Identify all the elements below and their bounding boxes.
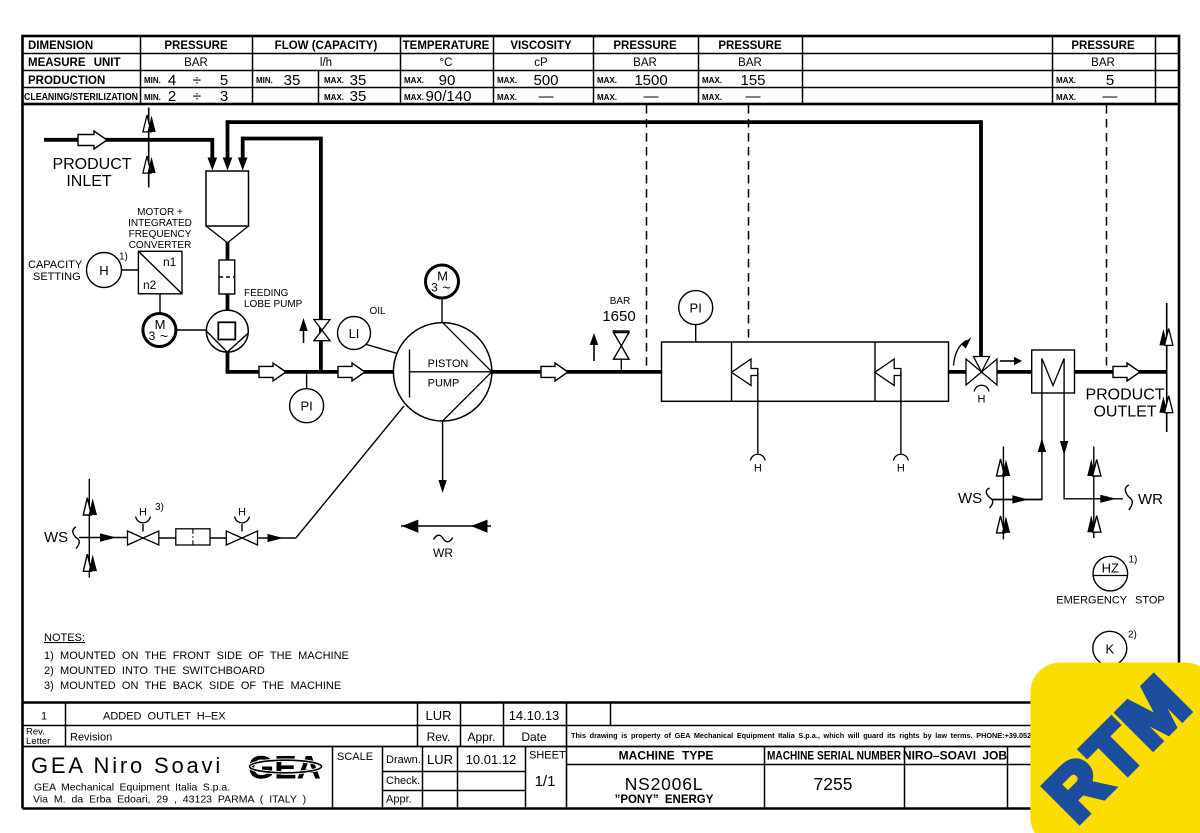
open flow arrow lobe pump discharge 2 bbox=[338, 363, 365, 381]
svg-text:H: H bbox=[897, 463, 905, 475]
wire converter to motor bbox=[159, 294, 161, 313]
svg-text:n2: n2 bbox=[143, 278, 157, 292]
pipe recycle drop to hopper bbox=[226, 120, 230, 160]
svg-text:4: 4 bbox=[168, 72, 176, 89]
svg-text:3: 3 bbox=[149, 329, 156, 343]
svg-text:PUMP: PUMP bbox=[428, 378, 460, 390]
pipe lobe pump to piston pump bbox=[226, 370, 394, 374]
svg-text:BAR: BAR bbox=[610, 296, 631, 307]
WR flow arrow bbox=[1100, 495, 1116, 503]
svg-text:2: 2 bbox=[168, 88, 176, 105]
dashed signal line pressure 155 column bbox=[748, 105, 750, 342]
pipe 3way valve to heat exchanger bbox=[997, 370, 1032, 374]
WS left flow arrow bbox=[100, 533, 116, 541]
svg-text:NS2006L: NS2006L bbox=[625, 774, 704, 794]
frame right border bbox=[1178, 104, 1181, 703]
pipe hopper to damper bbox=[226, 242, 230, 260]
svg-text:÷: ÷ bbox=[193, 72, 201, 89]
svg-text:1): 1) bbox=[119, 252, 128, 263]
water out arrow down bbox=[1060, 441, 1068, 455]
svg-text:—: — bbox=[1103, 88, 1118, 105]
heat exchanger water inlet pipe bbox=[993, 359, 1042, 500]
WR barrier triangles bbox=[1087, 459, 1101, 532]
hand actuator WS valve 1 bbox=[136, 502, 164, 532]
svg-text:GEA: GEA bbox=[248, 750, 321, 786]
pipe lobe pump discharge bbox=[226, 351, 230, 372]
svg-text:PRESSURE: PRESSURE bbox=[718, 40, 782, 52]
heat exchanger box bbox=[1032, 350, 1075, 393]
svg-text:MAX.: MAX. bbox=[597, 93, 617, 102]
frame left border bbox=[21, 104, 24, 703]
flexible damper joint bbox=[219, 260, 235, 294]
svg-text:MAX.: MAX. bbox=[324, 93, 344, 102]
pipe damper to lobe pump bbox=[226, 294, 230, 311]
WS left flow arrow 2 bbox=[268, 534, 284, 542]
svg-text:MAX.: MAX. bbox=[1056, 76, 1076, 85]
svg-text:H: H bbox=[99, 263, 108, 278]
svg-text:VISCOSITY: VISCOSITY bbox=[510, 40, 572, 52]
svg-text:PRODUCT: PRODUCT bbox=[52, 156, 131, 173]
strainer box bbox=[176, 529, 210, 545]
pipe homogenizer block to 3way valve bbox=[949, 370, 967, 374]
wire H to frequency converter bbox=[122, 269, 139, 271]
svg-text:BAR: BAR bbox=[1091, 57, 1115, 69]
svg-text:MACHINE TYPE: MACHINE TYPE bbox=[619, 749, 714, 763]
svg-text:OUTLET: OUTLET bbox=[1093, 404, 1156, 421]
svg-text:PRESSURE: PRESSURE bbox=[613, 40, 677, 52]
svg-text:LUR: LUR bbox=[427, 752, 453, 767]
svg-text:1650: 1650 bbox=[602, 308, 635, 325]
svg-text:LOBE PUMP: LOBE PUMP bbox=[244, 299, 303, 310]
piston pump circle bbox=[393, 323, 491, 421]
svg-text:OIL: OIL bbox=[370, 306, 387, 317]
svg-text:PRESSURE: PRESSURE bbox=[1071, 40, 1135, 52]
svg-text:WS: WS bbox=[958, 490, 982, 507]
table outer border bbox=[23, 36, 1180, 104]
svg-text:500: 500 bbox=[533, 72, 558, 89]
svg-text:INLET: INLET bbox=[66, 173, 112, 190]
pipe strainer to valve2 bbox=[210, 537, 226, 539]
bypass valve bowtie bbox=[314, 320, 330, 341]
hand valve WS 2 bbox=[226, 531, 257, 545]
svg-text:CLEANING/STERILIZATION: CLEANING/STERILIZATION bbox=[24, 92, 138, 103]
svg-text:MAX.: MAX. bbox=[702, 76, 722, 85]
pipe recycle top horizontal bbox=[228, 120, 982, 124]
svg-text:Appr.: Appr. bbox=[386, 794, 412, 806]
pipe break squiggle WR bbox=[1125, 485, 1132, 510]
svg-text:BAR: BAR bbox=[633, 57, 657, 69]
svg-text:÷: ÷ bbox=[193, 88, 201, 105]
hopper inlet arrow 2 bbox=[223, 158, 233, 171]
pipe valve1 to strainer bbox=[159, 537, 176, 539]
svg-text:ADDED OUTLET H–EX: ADDED OUTLET H–EX bbox=[103, 711, 226, 723]
svg-text:5: 5 bbox=[1106, 72, 1114, 89]
svg-text:FLOW (CAPACITY): FLOW (CAPACITY) bbox=[275, 40, 378, 52]
svg-text:FEEDING: FEEDING bbox=[244, 288, 289, 299]
svg-text:MIN.: MIN. bbox=[144, 93, 161, 102]
pipe break squiggle WS right bbox=[986, 488, 993, 508]
svg-text:Revision: Revision bbox=[70, 732, 112, 744]
oil level indicator LI bbox=[338, 317, 371, 350]
wire motor to lobe pump bbox=[176, 329, 207, 331]
svg-text:BAR: BAR bbox=[738, 57, 762, 69]
motor M 3~ for lobe pump bbox=[143, 314, 176, 347]
pipe product inlet horizontal bbox=[44, 138, 212, 142]
svg-text:MAX.: MAX. bbox=[597, 76, 617, 85]
svg-text:BAR: BAR bbox=[184, 57, 208, 69]
svg-text:155: 155 bbox=[740, 72, 765, 89]
svg-text:CONVERTER: CONVERTER bbox=[129, 240, 192, 251]
WS left barrier line bbox=[88, 479, 90, 578]
svg-text:1500: 1500 bbox=[634, 72, 667, 89]
svg-text:PRESSURE: PRESSURE bbox=[164, 40, 228, 52]
svg-text:1) MOUNTED ON THE FRONT SIDE O: 1) MOUNTED ON THE FRONT SIDE OF THE MACH… bbox=[44, 650, 349, 662]
svg-text:MACHINE SERIAL NUMBER: MACHINE SERIAL NUMBER bbox=[767, 749, 901, 763]
WS right flow arrow bbox=[1012, 495, 1028, 503]
open flow arrow on product inlet bbox=[78, 131, 107, 149]
pipe piston pump to homogenizer block bbox=[492, 370, 662, 374]
svg-text:PRODUCT: PRODUCT bbox=[1085, 387, 1164, 404]
svg-text:”PONY” ENERGY: ”PONY” ENERGY bbox=[615, 794, 714, 806]
svg-text:PISTON: PISTON bbox=[428, 358, 469, 370]
svg-text:H: H bbox=[238, 507, 246, 519]
svg-text:NIRO–SOAVI JOB: NIRO–SOAVI JOB bbox=[903, 749, 1007, 763]
svg-text:MAX.: MAX. bbox=[404, 76, 424, 85]
svg-text:10.01.12: 10.01.12 bbox=[466, 752, 517, 767]
svg-text:SETTING: SETTING bbox=[33, 271, 81, 283]
svg-text:LUR: LUR bbox=[425, 708, 451, 723]
svg-text:Check.: Check. bbox=[386, 775, 420, 787]
control element K bbox=[1093, 630, 1137, 666]
wire LI to piston pump bbox=[367, 345, 398, 354]
hand valve WS 1 bbox=[128, 531, 159, 545]
svg-text:PI: PI bbox=[690, 300, 702, 315]
sterile barrier symbol on inlet bbox=[143, 108, 156, 188]
hand actuator 3way valve bbox=[974, 385, 989, 405]
capacity setting hand switch H bbox=[87, 252, 128, 288]
svg-text:~: ~ bbox=[442, 280, 450, 296]
svg-text:H: H bbox=[139, 507, 147, 519]
WS right barrier line bbox=[1002, 447, 1004, 540]
svg-text:MOTOR +: MOTOR + bbox=[137, 207, 183, 218]
svg-text:1/1: 1/1 bbox=[535, 773, 556, 790]
flow direction arrow up at safety valve bbox=[590, 333, 598, 361]
WS left barrier triangles bbox=[83, 498, 97, 572]
svg-text:DIMENSION: DIMENSION bbox=[28, 40, 93, 52]
svg-text:This drawing is property of GE: This drawing is property of GEA Mechanic… bbox=[571, 731, 1061, 740]
svg-text:90: 90 bbox=[439, 72, 456, 89]
3way recirculation valve bbox=[966, 357, 997, 386]
svg-text:Appr.: Appr. bbox=[467, 730, 495, 744]
svg-text:Date: Date bbox=[521, 730, 547, 744]
hand actuator WS valve 2 bbox=[235, 507, 250, 532]
pressure gauge PI homogenizer bbox=[679, 291, 713, 342]
table row lines bbox=[23, 54, 1180, 88]
piston pump drain line bbox=[438, 421, 446, 493]
pipe recycle vertical right bbox=[979, 120, 983, 357]
svg-text:35: 35 bbox=[284, 72, 301, 89]
flow direction arrow up on bypass bbox=[299, 318, 307, 343]
feed hopper funnel bbox=[206, 226, 249, 243]
svg-text:3: 3 bbox=[431, 281, 438, 295]
svg-text:n1: n1 bbox=[163, 255, 177, 269]
homogenizer stage divider 1 bbox=[731, 342, 733, 401]
open flow arrow piston pump discharge bbox=[541, 363, 568, 381]
homogenizer block body bbox=[662, 342, 949, 401]
open flow arrow product outlet bbox=[1113, 363, 1140, 381]
svg-text:MIN.: MIN. bbox=[144, 76, 161, 85]
svg-text:35: 35 bbox=[350, 88, 367, 105]
hopper inlet arrow 1 bbox=[208, 158, 218, 171]
svg-text:—: — bbox=[539, 88, 554, 105]
pipe WS left horizontal bbox=[79, 537, 128, 539]
open flow arrow lobe pump discharge 1 bbox=[259, 363, 286, 381]
svg-text:2) MOUNTED INTO THE SWITCHBOAR: 2) MOUNTED INTO THE SWITCHBOARD bbox=[44, 665, 265, 677]
dashed signal line pressure 5 column bbox=[1106, 105, 1108, 372]
svg-text:1): 1) bbox=[1129, 555, 1138, 566]
homogenizing valve stage 2 bbox=[875, 359, 901, 386]
svg-text:7255: 7255 bbox=[814, 774, 853, 794]
WR barrier line bbox=[1093, 447, 1095, 539]
svg-text:GEA Niro Soavi: GEA Niro Soavi bbox=[31, 753, 223, 778]
svg-text:MIN.: MIN. bbox=[256, 76, 273, 85]
svg-text:HZ: HZ bbox=[1102, 561, 1119, 576]
pressure gauge PI lobe pump bbox=[290, 372, 324, 423]
svg-text:H: H bbox=[978, 394, 986, 406]
hand actuator stage 2 bbox=[894, 372, 909, 475]
title block outer borders bbox=[23, 701, 1180, 704]
svg-text:FREQUENCY: FREQUENCY bbox=[129, 229, 192, 240]
svg-text:1: 1 bbox=[41, 711, 47, 723]
svg-text:MAX.: MAX. bbox=[702, 93, 722, 102]
pipe heat exchanger to outlet bbox=[1075, 370, 1168, 374]
svg-text:INTEGRATED: INTEGRATED bbox=[128, 218, 192, 229]
svg-text:MAX.: MAX. bbox=[497, 93, 517, 102]
water in arrow up bbox=[1038, 438, 1046, 452]
svg-text:WS: WS bbox=[44, 529, 68, 546]
svg-text:2): 2) bbox=[1128, 630, 1137, 641]
feed hopper tank bbox=[206, 171, 249, 226]
svg-text:MAX.: MAX. bbox=[497, 76, 517, 85]
svg-text:SHEET: SHEET bbox=[529, 750, 566, 762]
svg-text:TEMPERATURE: TEMPERATURE bbox=[403, 40, 490, 52]
svg-text:WR: WR bbox=[1138, 491, 1163, 508]
svg-text:°C: °C bbox=[440, 57, 453, 69]
heat exchanger water outlet pipe bbox=[1064, 359, 1123, 499]
pipe bypass vertical bbox=[319, 137, 323, 372]
svg-text:~: ~ bbox=[160, 328, 168, 344]
title block row lines bbox=[23, 725, 1180, 727]
svg-text:SCALE: SCALE bbox=[337, 751, 373, 763]
svg-text:LI: LI bbox=[349, 326, 360, 341]
svg-text:MAX.: MAX. bbox=[324, 76, 344, 85]
svg-text:35: 35 bbox=[350, 72, 367, 89]
flow column sub-divider bbox=[318, 70, 320, 104]
emergency stop HZ indicator bbox=[1093, 555, 1137, 591]
svg-text:—: — bbox=[746, 88, 761, 105]
svg-text:H: H bbox=[754, 463, 762, 475]
dashed signal line pressure 1500 column bbox=[646, 105, 648, 372]
homogenizer stage divider 2 bbox=[874, 342, 876, 401]
svg-text:—: — bbox=[644, 88, 659, 105]
table column lines bbox=[141, 36, 1156, 104]
frequency converter box n1 n2 bbox=[138, 251, 182, 293]
label MOTOR + INTEGRATED FREQUENCY CONVERTER bbox=[128, 207, 192, 251]
svg-text:Rev.: Rev. bbox=[427, 730, 451, 744]
sterile barrier symbol on outlet bbox=[1159, 303, 1173, 432]
WS right barrier triangles bbox=[997, 459, 1011, 533]
svg-text:MAX.: MAX. bbox=[1056, 93, 1076, 102]
svg-text:MAX.: MAX. bbox=[404, 93, 424, 102]
title block column lines bbox=[65, 703, 67, 747]
svg-text:90/140: 90/140 bbox=[426, 88, 472, 105]
svg-text:5: 5 bbox=[220, 72, 228, 89]
svg-text:Drawn.: Drawn. bbox=[386, 754, 421, 766]
pipe bypass top horizontal bbox=[243, 137, 321, 141]
svg-text:EMERGENCY STOP: EMERGENCY STOP bbox=[1056, 595, 1165, 607]
hopper inlet arrow 3 bbox=[238, 158, 248, 171]
svg-text:CAPACITY: CAPACITY bbox=[28, 259, 83, 271]
flow direction arrow to heat exchanger bbox=[1000, 357, 1022, 365]
drain WR symbol under piston pump bbox=[401, 520, 491, 560]
safety relief valve 1650 bar bbox=[613, 331, 630, 372]
svg-text:14.10.13: 14.10.13 bbox=[509, 708, 560, 723]
hand actuator stage 1 bbox=[750, 372, 765, 475]
svg-text:3) MOUNTED ON THE BACK SIDE OF: 3) MOUNTED ON THE BACK SIDE OF THE MACHI… bbox=[44, 680, 341, 692]
pipe break squiggle WS left bbox=[73, 527, 80, 549]
svg-text:l/h: l/h bbox=[320, 57, 332, 69]
svg-text:K: K bbox=[1105, 641, 1114, 656]
svg-text:Via M. da Erba Edoari, 29 , 43: Via M. da Erba Edoari, 29 , 43123 PARMA … bbox=[33, 794, 306, 806]
svg-text:PI: PI bbox=[300, 399, 312, 414]
pipe WS supply diagonal to piston pump bbox=[296, 406, 404, 538]
feeding lobe pump bbox=[206, 310, 248, 352]
wire motor to piston pump bbox=[441, 298, 443, 323]
svg-text:WR: WR bbox=[433, 546, 453, 560]
GEA logo bbox=[248, 750, 322, 786]
motor M 3~ for piston pump bbox=[426, 265, 459, 298]
svg-text:GEA Mechanical Equipment Itali: GEA Mechanical Equipment Italia S.p.a. bbox=[34, 782, 230, 794]
pipe valve2 to diagonal bbox=[258, 537, 297, 539]
homogenizing valve stage 1 bbox=[732, 359, 758, 386]
svg-text:3): 3) bbox=[155, 502, 164, 513]
svg-text:Letter: Letter bbox=[26, 736, 50, 747]
pipe inlet drop to hopper bbox=[210, 138, 214, 160]
pipe bypass drop to hopper bbox=[241, 137, 245, 160]
svg-text:cP: cP bbox=[534, 57, 548, 69]
svg-text:NOTES:: NOTES: bbox=[44, 632, 85, 644]
curved flow arrow at 3way valve bbox=[954, 337, 972, 366]
svg-text:MEASURE UNIT: MEASURE UNIT bbox=[28, 57, 121, 69]
pipe WS right horizontal bbox=[992, 499, 1042, 501]
svg-text:3: 3 bbox=[220, 88, 228, 105]
svg-text:PRODUCTION: PRODUCTION bbox=[28, 75, 105, 87]
